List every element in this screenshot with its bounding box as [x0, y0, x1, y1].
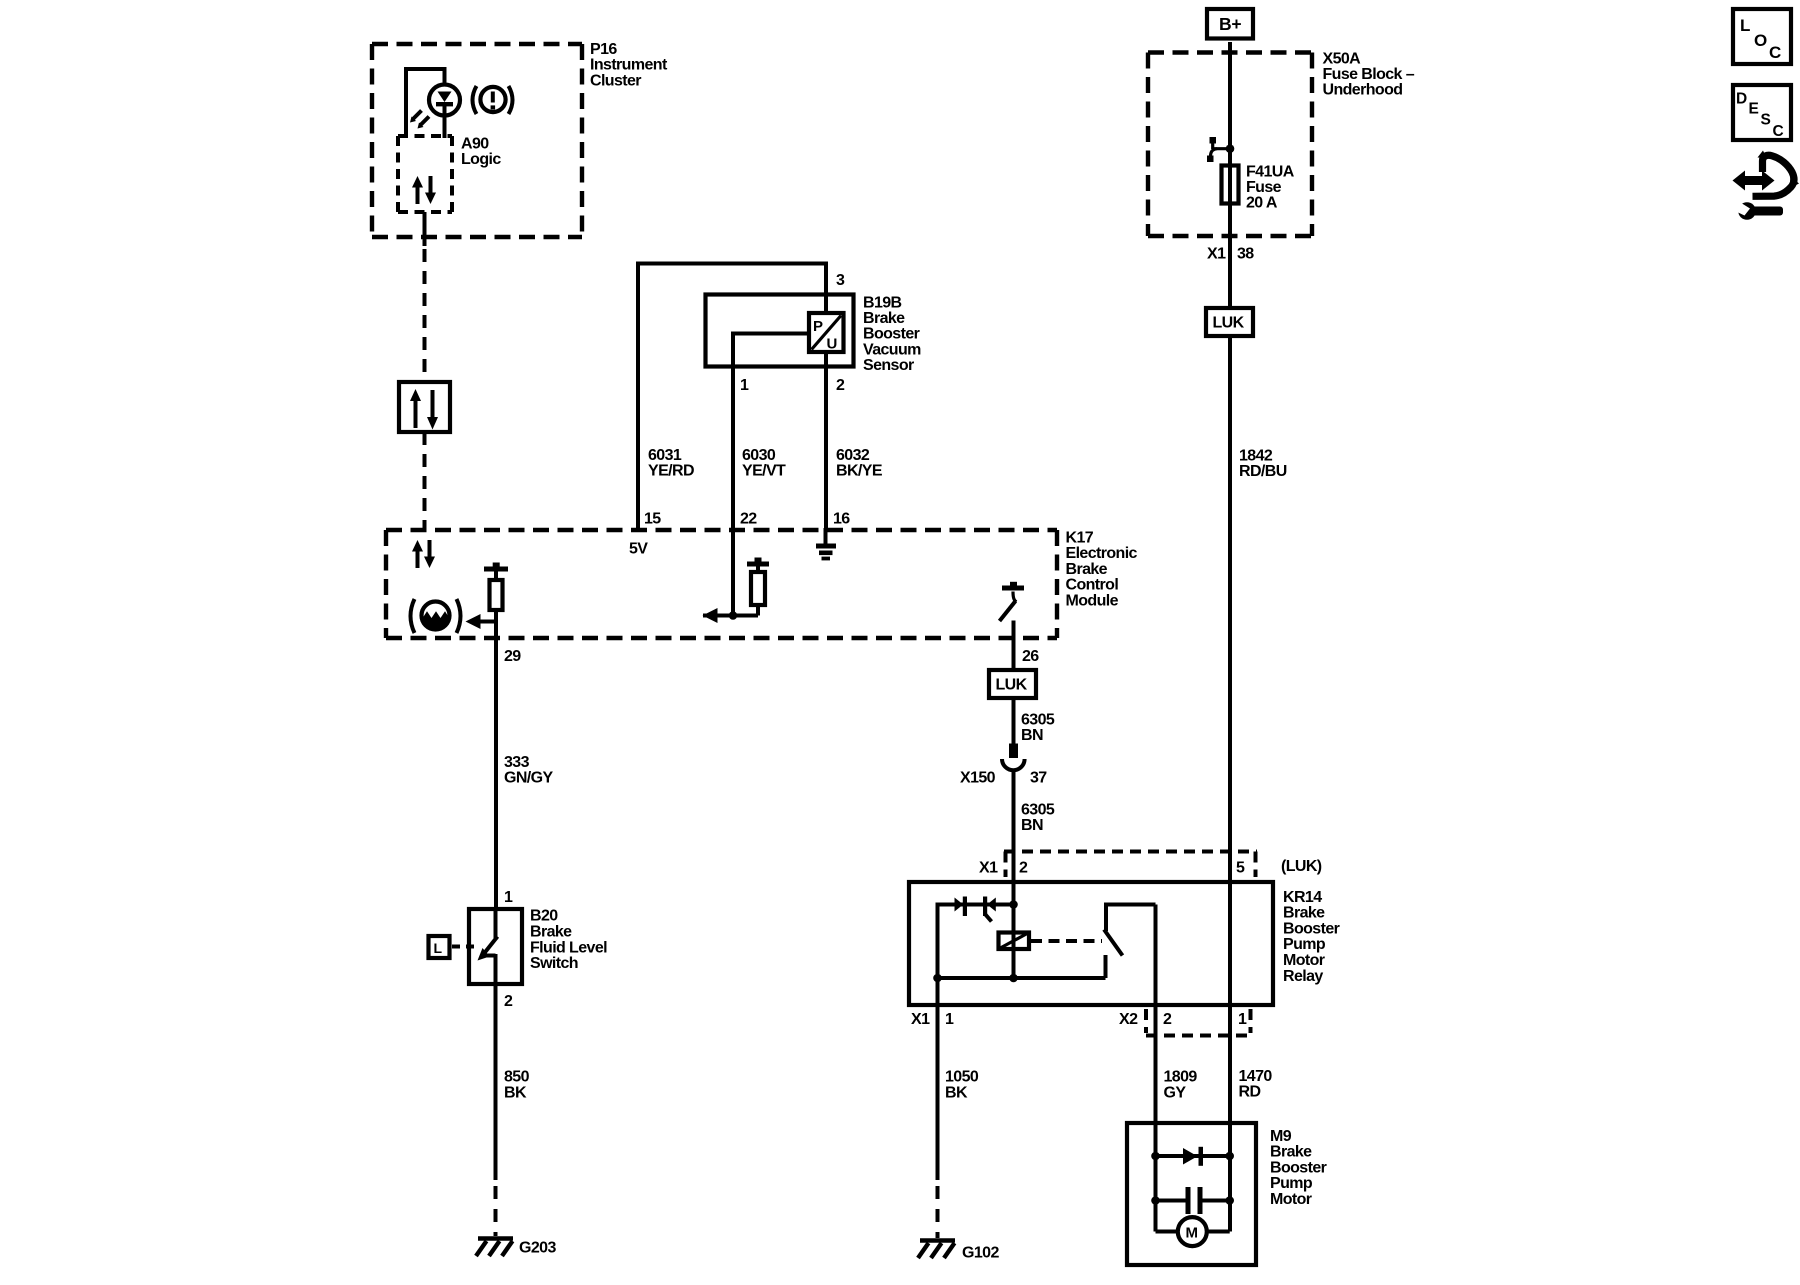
svg-text:BK/YE: BK/YE	[836, 462, 883, 479]
svg-text:1: 1	[504, 889, 513, 906]
svg-text:Motor: Motor	[1283, 952, 1325, 969]
svg-text:15: 15	[644, 510, 661, 527]
svg-text:X2: X2	[1119, 1011, 1138, 1028]
svg-text:G102: G102	[962, 1245, 999, 1262]
svg-text:3: 3	[836, 272, 845, 289]
svg-text:1: 1	[945, 1011, 954, 1028]
svg-text:6032: 6032	[836, 447, 870, 464]
svg-text:Motor: Motor	[1270, 1191, 1312, 1208]
svg-text:YE/RD: YE/RD	[648, 462, 694, 479]
svg-text:2: 2	[1019, 859, 1028, 876]
svg-text:22: 22	[740, 510, 757, 527]
svg-text:Fuse: Fuse	[1246, 179, 1282, 196]
svg-text:KR14: KR14	[1283, 889, 1322, 906]
svg-text:P16: P16	[590, 41, 617, 58]
svg-text:5V: 5V	[629, 540, 648, 557]
svg-text:Booster: Booster	[1270, 1159, 1327, 1176]
svg-text:Vacuum: Vacuum	[863, 341, 921, 358]
svg-text:20 A: 20 A	[1246, 194, 1278, 211]
svg-text:E: E	[1749, 101, 1759, 118]
svg-text:6305: 6305	[1021, 712, 1055, 729]
svg-text:2: 2	[504, 993, 513, 1010]
svg-text:Instrument: Instrument	[590, 57, 668, 74]
svg-text:5: 5	[1236, 859, 1245, 876]
svg-text:Cluster: Cluster	[590, 72, 641, 89]
svg-text:Brake: Brake	[530, 924, 572, 941]
svg-text:L: L	[434, 940, 443, 956]
svg-text:X1: X1	[979, 859, 998, 876]
svg-text:YE/VT: YE/VT	[742, 462, 786, 479]
svg-text:Logic: Logic	[461, 151, 501, 168]
svg-text:Fluid Level: Fluid Level	[530, 939, 607, 956]
svg-text:X1: X1	[911, 1011, 930, 1028]
svg-text:Switch: Switch	[530, 955, 578, 972]
svg-text:GN/GY: GN/GY	[504, 769, 553, 786]
svg-text:Booster: Booster	[1283, 920, 1340, 937]
svg-text:1: 1	[1238, 1011, 1247, 1028]
svg-text:L: L	[1740, 16, 1750, 35]
svg-text:LUK: LUK	[996, 677, 1028, 694]
svg-text:BK: BK	[945, 1084, 968, 1101]
svg-text:Sensor: Sensor	[863, 357, 914, 374]
svg-text:(LUK): (LUK)	[1281, 858, 1322, 875]
svg-text:P: P	[813, 318, 823, 335]
svg-text:X150: X150	[960, 770, 996, 787]
svg-text:1: 1	[740, 377, 749, 394]
svg-text:M9: M9	[1270, 1128, 1292, 1145]
svg-text:B20: B20	[530, 907, 558, 924]
svg-text:16: 16	[833, 510, 850, 527]
svg-text:Brake: Brake	[863, 310, 905, 327]
svg-text:D: D	[1736, 91, 1747, 108]
svg-text:1842: 1842	[1239, 447, 1273, 464]
svg-text:S: S	[1761, 112, 1771, 129]
svg-text:C: C	[1769, 43, 1781, 62]
svg-text:6030: 6030	[742, 447, 776, 464]
svg-text:Brake: Brake	[1066, 561, 1108, 578]
svg-text:Underhood: Underhood	[1323, 82, 1403, 99]
svg-text:M: M	[1186, 1225, 1198, 1242]
svg-text:Module: Module	[1066, 593, 1119, 610]
svg-text:RD/BU: RD/BU	[1239, 463, 1287, 480]
svg-text:U: U	[827, 336, 837, 353]
svg-text:38: 38	[1237, 245, 1254, 262]
svg-text:BN: BN	[1021, 817, 1043, 834]
svg-text:B+: B+	[1219, 14, 1241, 34]
svg-text:Pump: Pump	[1283, 936, 1326, 953]
svg-text:1809: 1809	[1164, 1069, 1198, 1086]
svg-text:1470: 1470	[1239, 1068, 1273, 1085]
svg-text:333: 333	[504, 754, 530, 771]
svg-text:RD: RD	[1239, 1084, 1261, 1101]
svg-text:C: C	[1773, 123, 1784, 140]
svg-text:Control: Control	[1066, 577, 1119, 594]
svg-text:GY: GY	[1164, 1084, 1187, 1101]
svg-text:X50A: X50A	[1323, 50, 1362, 67]
svg-text:Pump: Pump	[1270, 1175, 1313, 1192]
svg-text:2: 2	[836, 377, 845, 394]
svg-text:Fuse Block –: Fuse Block –	[1323, 66, 1415, 83]
svg-text:Brake: Brake	[1283, 905, 1325, 922]
svg-text:K17: K17	[1066, 529, 1094, 546]
svg-text:26: 26	[1022, 648, 1039, 665]
svg-text:Brake: Brake	[1270, 1144, 1312, 1161]
svg-text:6031: 6031	[648, 447, 682, 464]
svg-text:6305: 6305	[1021, 801, 1055, 818]
svg-text:Electronic: Electronic	[1066, 545, 1138, 562]
svg-text:B19B: B19B	[863, 294, 902, 311]
svg-text:1050: 1050	[945, 1069, 979, 1086]
svg-text:Relay: Relay	[1283, 968, 1323, 985]
svg-text:A90: A90	[461, 135, 489, 152]
svg-text:G203: G203	[519, 1240, 556, 1257]
svg-text:29: 29	[504, 648, 521, 665]
svg-text:F41UA: F41UA	[1246, 163, 1295, 180]
svg-text:O: O	[1754, 31, 1767, 50]
svg-text:X1: X1	[1207, 245, 1226, 262]
svg-text:Booster: Booster	[863, 326, 920, 343]
svg-text:BN: BN	[1021, 727, 1043, 744]
svg-text:LUK: LUK	[1213, 315, 1245, 332]
svg-text:37: 37	[1030, 770, 1047, 787]
svg-text:2: 2	[1163, 1011, 1172, 1028]
svg-text:BK: BK	[504, 1084, 527, 1101]
svg-text:850: 850	[504, 1069, 530, 1086]
